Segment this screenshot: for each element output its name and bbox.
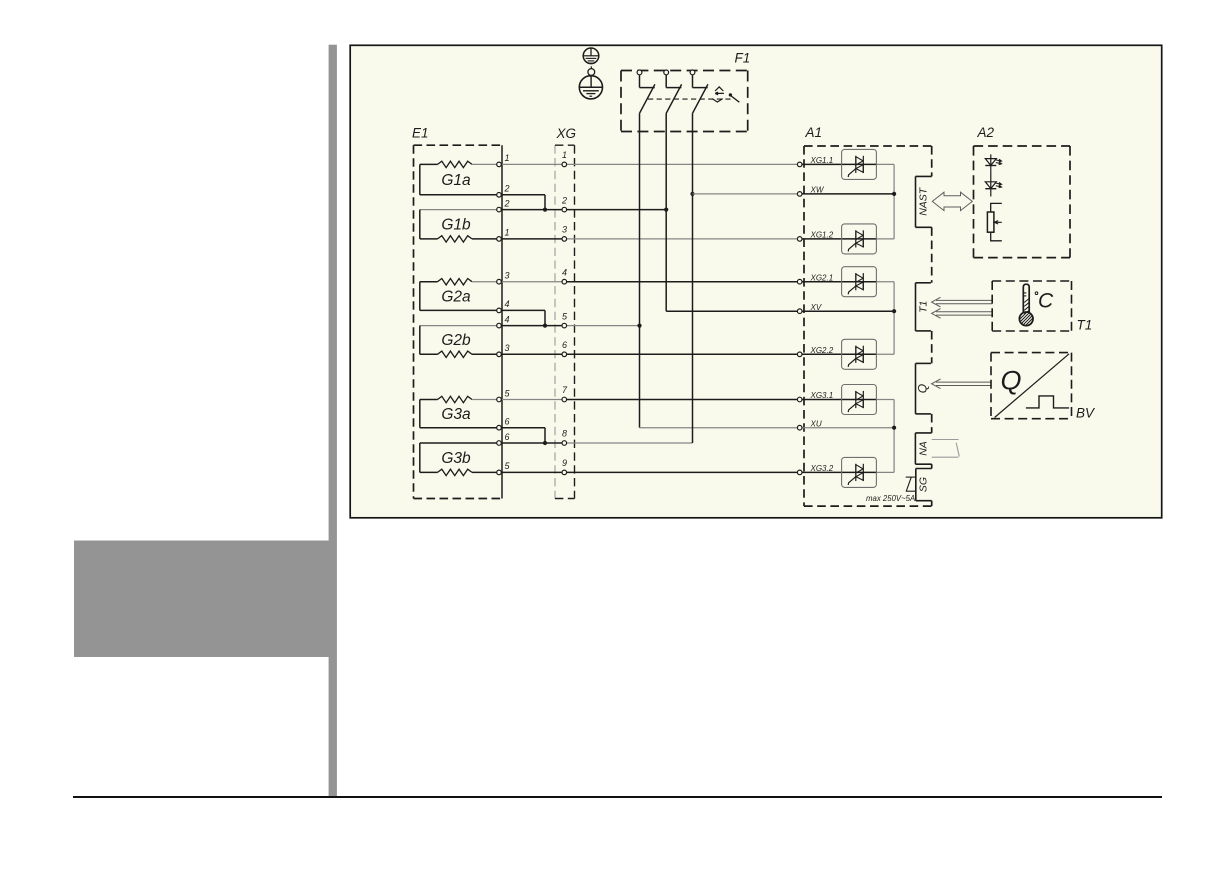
svg-text:1: 1 [505,153,510,163]
triac optocoupler 5 [842,385,877,415]
junction node bus/XU [892,426,896,430]
connector SG bracket [916,469,932,501]
BV diagonal divider [995,354,1070,418]
triac optocoupler 1 [842,149,877,179]
E1 terminal circles [497,162,502,167]
wire: G3a pin5 to XG pin7 [501,399,562,401]
bus group1 [893,164,895,239]
svg-text:6: 6 [505,432,510,442]
F1 thermal-magnetic release symbol [712,87,724,102]
SG fuse link symbol [906,477,916,491]
wire: G1a pin1 to XG pin1 [501,163,562,165]
wire: G2a pin3 to XG pin4 [501,281,562,283]
svg-text:XU: XU [810,419,822,428]
wire: XG3.2 through triac to bus [802,471,842,473]
triac optocoupler 6 [842,457,877,487]
F1 pole 3 contact [690,70,708,113]
sidebar vertical gray bar [329,45,337,797]
XG pin circles [562,162,567,167]
svg-text:A2: A2 [977,125,995,140]
wire: pole1 to A1 terminal XU [640,427,798,429]
heater element G2b [420,326,497,358]
svg-text:4: 4 [505,299,510,309]
wire: XG pin4 to A1 terminal XG2.1 [567,281,798,283]
sidebar gray block [74,541,337,658]
wire: XG pin9 to A1 terminal XG3.2 [567,471,798,473]
wire: XU to bus [802,427,894,429]
circuit breaker F1 dashed box [621,71,748,132]
triac optocoupler 3 [842,267,877,297]
svg-text:G2b: G2b [441,332,471,349]
degree-C label [1035,290,1054,313]
wire: XG pin3 to A1 terminal XG1.2 [567,238,798,240]
connector NAST bracket [916,176,932,227]
svg-text:8: 8 [562,429,567,439]
connector NA bracket [915,433,931,464]
heater element G2a [420,279,497,311]
controller A1 dashed box [804,146,932,506]
svg-text:F1: F1 [735,50,751,65]
wire: G3b pin6 to junction [501,442,545,444]
earthing terminal symbol (lower) [579,66,602,99]
triac optocoupler 4 [842,339,877,369]
wire: junction through XG pin2 to F1 pole2 [545,209,562,211]
svg-text:6: 6 [505,417,510,427]
svg-text:4: 4 [562,267,567,277]
heater element G3a [420,396,497,427]
schematic sheet background [350,45,1161,518]
wire: XG1.2 through triac to bus [802,238,842,240]
svg-text:6: 6 [562,340,567,350]
potentiometer in A2 [987,203,1001,240]
svg-text:2: 2 [561,195,567,205]
wire: XG2.2 through triac to bus [802,353,842,355]
thermometer icon [1018,284,1034,336]
wire: XG3.1 through triac to bus [802,399,842,401]
heater block E1 dashed box [414,145,503,498]
svg-text:XG: XG [556,126,577,141]
heater element G1b [420,210,497,243]
svg-text:C: C [1038,290,1054,313]
svg-text:XG3.1: XG3.1 [810,391,834,400]
wire: G2a pin4 to junction [501,309,545,311]
svg-text:XG1.2: XG1.2 [810,231,834,240]
junction node bus/XW [892,192,896,196]
svg-text:Q: Q [916,384,930,393]
svg-text:XG3.2: XG3.2 [810,464,834,473]
connector T1 bracket [916,283,931,331]
svg-text:XG1.1: XG1.1 [810,156,834,165]
junction node bus/XV [892,309,896,313]
svg-text:A1: A1 [805,125,823,140]
wire: XG pin1 to A1 terminal XG1.1 [567,163,798,165]
svg-text:NA: NA [918,441,930,456]
LED indicator 1 [985,154,1001,169]
footer rule [73,796,1162,798]
triac optocoupler 2 [842,224,877,254]
temperature sensor T1 dashed box [992,281,1071,331]
svg-text:E1: E1 [412,125,429,140]
wire: G2b pin4 to junction [501,325,545,327]
wire: XG2.1 through triac to bus [802,281,842,283]
svg-text:1: 1 [505,228,510,238]
svg-text:BV: BV [1076,406,1096,421]
wire: XG1.1 through triac to bus [802,163,842,165]
protective earth symbol (upper) [583,48,599,64]
svg-text:SG: SG [918,477,930,492]
heater element G3b [420,443,497,476]
svg-text:NAST: NAST [918,186,930,216]
wire: F1 pole2 drop to XV row [665,113,667,311]
svg-text:2: 2 [504,184,510,194]
wire: junction through XG pin5 to F1 pole1 [545,325,562,327]
svg-text:1: 1 [562,150,567,160]
LED indicator 2 [985,170,1001,197]
wire: F1 pole1 drop to XU row [639,113,641,427]
svg-text:3: 3 [562,225,567,235]
wire: XG pin6 to A1 terminal XG2.2 [567,353,798,355]
junction node (G2 midpoint) [543,324,547,328]
arrow temperature sensor to T1 (lower) [932,309,993,319]
wire: G3a pin6 to junction [501,427,545,429]
svg-text:G3b: G3b [441,450,471,467]
wire: G1b pin1 to XG pin3 [501,238,562,240]
svg-text:G1b: G1b [441,216,471,233]
F1 pole 1 contact [637,70,655,113]
connector Q bracket [916,363,931,414]
F1 trip linkage (dashed) [648,98,731,100]
junction node on pole1 line [637,324,641,328]
wire: XW to bus [802,193,894,195]
bidirectional arrow NAST-A2 [932,192,972,210]
wire: G2b pin3 to XG pin6 [501,353,562,355]
svg-text:max 250V~5A: max 250V~5A [866,494,915,503]
wire: F1 pole3 drop to XG pin8 row [692,113,694,443]
wire: XV to bus [802,310,894,312]
F1 operating lever [729,93,740,102]
BV pulse output symbol [1026,396,1069,408]
junction node pole3 / XW [690,192,694,196]
svg-text:XW: XW [810,186,825,195]
junction node on pole2 line [664,208,668,212]
A1 terminal circles [797,162,802,167]
NA cable stub [932,440,960,458]
svg-text:XG2.2: XG2.2 [810,346,834,355]
wire: G1b pin2 to junction [501,209,545,211]
wire: G1a pin2 to junction [501,194,545,196]
junction node (G1 midpoint) [543,208,547,212]
heater element G1a [420,161,497,195]
svg-text:3: 3 [505,343,510,353]
svg-text:9: 9 [562,458,567,468]
junction node (G3 midpoint) [543,441,547,445]
wire: junction through XG pin8 to F1 pole3 [545,442,562,444]
F1 pole 2 contact [664,70,682,113]
svg-text:G3a: G3a [441,406,471,423]
wire: pole3 to A1 terminal XW [693,193,798,195]
svg-text:XG2.1: XG2.1 [810,273,834,282]
bus group2 [893,282,895,355]
flow sensor BV dashed box [991,353,1072,419]
svg-text:G2a: G2a [441,288,471,305]
svg-text:Q: Q [1001,366,1022,396]
wire: XG pin7 to A1 terminal XG3.1 [567,399,798,401]
arrow flow sensor to Q [932,379,991,389]
bus group3 [893,400,895,473]
wire: G3b pin5 to XG pin9 [501,471,562,473]
svg-text:T1: T1 [1077,318,1093,333]
svg-text:3: 3 [505,271,510,281]
svg-text:XV: XV [810,303,822,312]
svg-text:4: 4 [505,314,510,324]
connector XG dashed box [555,145,575,498]
indication panel A2 dashed box [974,146,1071,258]
wire: pole2 to A1 terminal XV [666,310,797,312]
svg-text:G1a: G1a [441,172,471,189]
svg-text:2: 2 [504,198,510,208]
svg-text:T1: T1 [918,301,930,313]
arrow temperature sensor to T1 (upper) [932,297,993,307]
